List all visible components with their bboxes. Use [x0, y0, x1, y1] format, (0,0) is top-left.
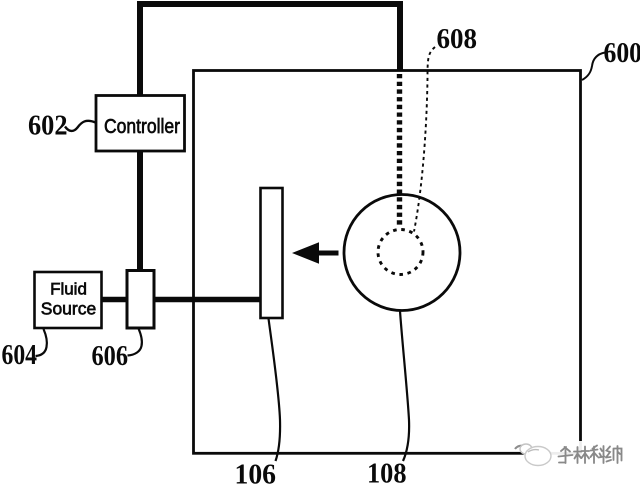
dotted leader line for 608	[414, 47, 435, 232]
svg-text:606: 606	[92, 341, 129, 372]
watermark text 华林科纳 (hand-drawn strokes, grey)	[559, 446, 622, 464]
watermark white overlay hiding chamber corner	[524, 441, 640, 469]
char lin	[574, 447, 589, 464]
svg-text:Controller: Controller	[104, 116, 180, 138]
dotted inner circle (wafer)	[378, 230, 423, 275]
char na	[606, 446, 622, 463]
controller box	[96, 96, 185, 152]
curved leader for 606	[128, 329, 142, 356]
nozzle 106 rectangle	[261, 188, 283, 318]
svg-text:108: 108	[367, 459, 407, 484]
wire: fluid line inside chamber to nozzle	[193, 297, 261, 303]
svg-text:608: 608	[437, 24, 478, 55]
char hua	[559, 447, 573, 463]
svg-text:Source: Source	[41, 299, 96, 319]
valve box 606	[127, 271, 154, 329]
arrow pointing left from circle to nozzle	[292, 242, 339, 263]
squiggle leader for 602	[65, 121, 96, 131]
svg-text:604: 604	[2, 340, 38, 371]
wafer carrier circle 108	[344, 195, 460, 311]
wire: thick pipe from controller up, across top, down to chamber top	[140, 4, 400, 273]
svg-text:106: 106	[235, 460, 277, 484]
svg-text:602: 602	[28, 111, 68, 142]
wavy leader from circle to label 108	[400, 311, 409, 461]
chamber 600 outline	[194, 71, 581, 454]
curved leader for 604	[36, 329, 47, 356]
wavy leader from nozzle to label 106	[269, 319, 281, 462]
char ke	[591, 446, 605, 464]
svg-text:Fluid: Fluid	[50, 280, 87, 299]
curved leader for 600	[582, 53, 605, 81]
watermark logo (grey outline blobs)	[515, 444, 551, 466]
fluid source box	[35, 272, 102, 328]
wire: thick dotted line from chamber top down to dotted circle	[397, 74, 402, 228]
svg-text:600: 600	[604, 38, 640, 69]
wire: thick fluid supply line from Fluid Source to nozzle	[100, 297, 261, 303]
